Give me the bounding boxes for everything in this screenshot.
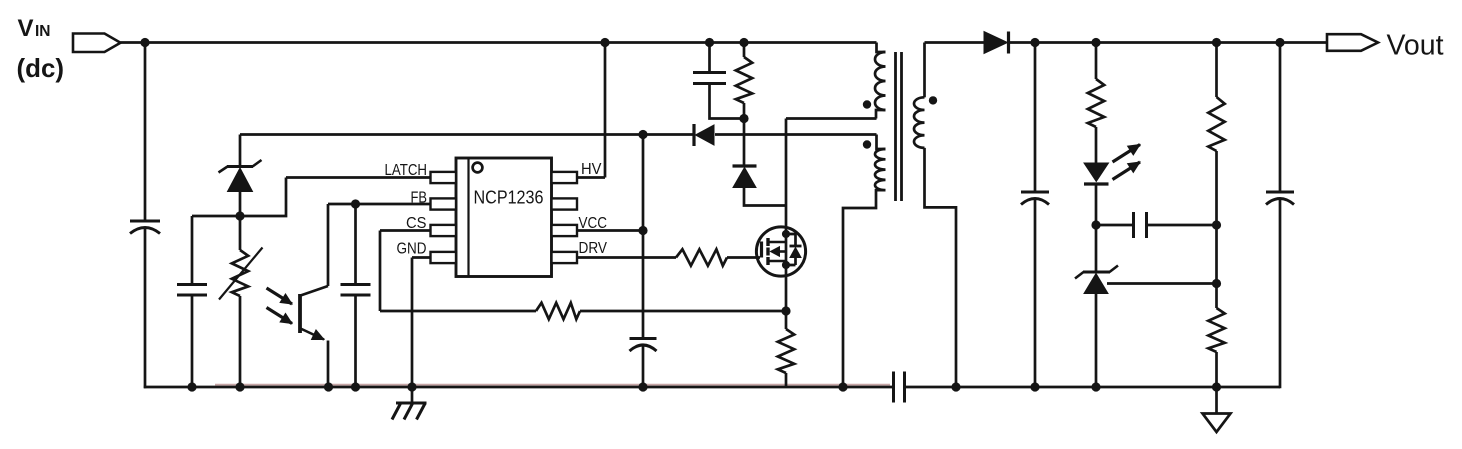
- wire aux top lead: [877, 135, 886, 150]
- label Vout: [1387, 30, 1444, 62]
- label FB: [411, 190, 428, 207]
- junction ref ground: [1091, 382, 1100, 391]
- wire cap C3 upper lead: [354, 204, 357, 285]
- capacitor C1 input bulk: [130, 221, 160, 234]
- capacitor C7 output: [1021, 192, 1049, 205]
- wire latch node left: [192, 215, 240, 218]
- wire comp cap right lead: [1147, 224, 1217, 227]
- junction snubber bottom: [739, 114, 748, 123]
- pin 4 GND: [431, 252, 457, 263]
- pin 7 NC: [552, 198, 578, 209]
- label GND: [397, 241, 427, 258]
- junction VCC pin node: [638, 226, 647, 235]
- wire source drop: [785, 276, 788, 311]
- wire primary top lead: [877, 43, 886, 53]
- junction VCC cap ground: [638, 382, 647, 391]
- wire aux winding top line: [715, 133, 877, 136]
- wire cap C2 upper lead: [191, 216, 194, 285]
- junction divider ground: [1212, 382, 1221, 391]
- inductor T1 secondary winding: [914, 97, 924, 148]
- wire top rail VIN to transformer: [121, 41, 877, 44]
- diode D4 opto LED: [1084, 163, 1109, 225]
- wire CS riser: [379, 231, 382, 312]
- junction source CS node: [781, 306, 790, 315]
- wire VIN bulk drop upper: [144, 43, 147, 222]
- wire GND pin: [412, 256, 431, 259]
- junction VCC node top: [638, 130, 647, 139]
- wire output rail: [1009, 41, 1328, 44]
- capacitor C6 Y-cap: [894, 372, 905, 403]
- wire aux bottom lead: [843, 190, 886, 388]
- capacitor C5 snubber: [693, 73, 726, 84]
- diode D1 clamp: [733, 166, 757, 188]
- zener diode D5 shunt reference: [1075, 225, 1118, 387]
- pin 8 HV: [552, 172, 578, 183]
- wire Cout1 lower lead: [1034, 199, 1037, 388]
- inductor T1 primary winding: [875, 52, 886, 110]
- node aux phase dot: [863, 140, 871, 148]
- junction LED branch rail: [1091, 38, 1100, 47]
- wire VCC pin: [577, 229, 643, 232]
- svg-text:HV: HV: [581, 161, 602, 178]
- label HV: [581, 161, 602, 178]
- junction input bulk: [140, 38, 149, 47]
- wire CS pin: [380, 229, 431, 232]
- wire gate: [727, 256, 760, 259]
- wire GND drop: [411, 258, 414, 388]
- wire snubber cap upper lead: [708, 43, 711, 73]
- capacitor C8 compensation: [1134, 212, 1147, 238]
- wire comp cap left lead: [1096, 224, 1134, 227]
- LED light arrow 2: [1113, 162, 1141, 180]
- resistor R4 snubber: [736, 43, 752, 119]
- svg-text:NCP1236: NCP1236: [474, 187, 544, 208]
- wire bottom rail primary: [144, 386, 892, 389]
- opto light arrow 2: [267, 308, 293, 324]
- label DRV: [579, 240, 608, 257]
- pin 6 VCC: [552, 225, 578, 236]
- wire bottom rail secondary: [905, 386, 1281, 389]
- svg-text:DRV: DRV: [579, 240, 608, 257]
- pin 5 DRV: [552, 252, 578, 263]
- junction FB node: [351, 199, 360, 208]
- capacitor C3 FB filter: [341, 285, 371, 296]
- LED light arrow 1: [1113, 145, 1141, 163]
- wire opto collector riser: [327, 204, 330, 286]
- opto transistor Q1: [300, 286, 328, 340]
- wire LATCH pin: [286, 176, 431, 179]
- junction Cout1 ground: [1030, 382, 1039, 391]
- core T1 lines: [896, 52, 902, 201]
- wire bottom rail red tint: [215, 384, 890, 386]
- junction output cap A: [1030, 38, 1039, 47]
- wire CS line left: [380, 310, 536, 313]
- diode D3 output rectifier: [984, 32, 1009, 54]
- wire drain riser: [785, 119, 788, 229]
- wire clamp upper: [743, 119, 746, 167]
- junction snubber res rail: [739, 38, 748, 47]
- resistor R7 divider upper: [1208, 43, 1224, 226]
- wire cap C3 lower lead: [354, 295, 357, 387]
- junction output cap B: [1275, 38, 1284, 47]
- svg-text:LATCH: LATCH: [385, 162, 428, 179]
- junction HV rail: [600, 38, 609, 47]
- pin 1 LATCH: [431, 172, 457, 183]
- wire clamp lower: [744, 188, 786, 206]
- node primary phase dot: [863, 100, 871, 108]
- wire snubber cap lower lead: [710, 84, 745, 119]
- ground chassis symbol: [392, 387, 427, 420]
- resistor R5 sense: [778, 311, 794, 387]
- svg-text:FB: FB: [411, 190, 428, 207]
- wire HV riser: [604, 43, 607, 178]
- wire DRV pin: [577, 256, 676, 259]
- junction opto ground: [324, 382, 333, 391]
- resistor R2 CS filter: [536, 303, 580, 319]
- junction divider ref: [1212, 279, 1221, 288]
- svg-text:V: V: [18, 15, 34, 42]
- transistor Q2 MOSFET: [756, 227, 805, 276]
- junction C3 ground: [351, 382, 360, 391]
- wire VCC cap lower lead: [642, 345, 645, 387]
- svg-text:GND: GND: [397, 241, 427, 258]
- junction IC ground: [407, 382, 416, 391]
- svg-text:IN: IN: [35, 23, 51, 40]
- resistor R8 divider lower: [1208, 284, 1224, 388]
- wire VCC vertical: [642, 135, 645, 339]
- label VCC: [579, 215, 608, 232]
- diode D2 aux rectifier: [694, 124, 714, 146]
- junction divider rail: [1212, 38, 1221, 47]
- pin 2 FB: [431, 198, 457, 209]
- wire secondary top lead: [923, 43, 926, 98]
- wire secondary bottom lead: [925, 148, 957, 388]
- label CS: [406, 215, 427, 232]
- wire latch node to LATCH riser: [240, 178, 286, 217]
- wire reference node: [1107, 282, 1217, 285]
- op IC U1 NCP1236 body: [456, 158, 552, 277]
- wire FB pin: [328, 203, 431, 206]
- zener diode OVP latch: [219, 135, 262, 217]
- input terminal tag VIN: [73, 34, 121, 53]
- node secondary phase dot: [929, 96, 937, 104]
- svg-text:(dc): (dc): [17, 53, 65, 83]
- pin 3 CS: [431, 225, 457, 236]
- output terminal tag Vout: [1327, 34, 1378, 51]
- label VIN (dc): [17, 15, 65, 83]
- junction snubber cap rail: [705, 38, 714, 47]
- wire cap C2 lower lead: [191, 295, 194, 387]
- capacitor C9 output: [1266, 192, 1294, 205]
- capacitor C4 VCC: [630, 339, 657, 352]
- svg-text:Vout: Vout: [1387, 30, 1444, 62]
- inductor T1 aux winding: [875, 149, 886, 190]
- junction NTC ground: [235, 382, 244, 391]
- wire opto emitter drop: [327, 341, 330, 388]
- capacitor C2: [177, 285, 207, 296]
- junction aux ground: [838, 382, 847, 391]
- junction secondary ground: [951, 382, 960, 391]
- ground earth symbol output: [1203, 387, 1231, 432]
- junction LED comp node: [1091, 220, 1100, 229]
- wire HV pin: [577, 176, 605, 179]
- wire Cout1 upper lead: [1034, 43, 1037, 193]
- wire Cout2 lower lead: [1279, 199, 1282, 389]
- junction latch node: [235, 211, 244, 220]
- wire primary bottom lead: [786, 110, 886, 119]
- resistor R6 LED series: [1088, 43, 1104, 164]
- wire divider mid: [1215, 225, 1218, 284]
- wire CS line right: [580, 310, 786, 313]
- junction C2 ground: [187, 382, 196, 391]
- label LATCH: [385, 162, 428, 179]
- resistor R3 gate: [676, 249, 727, 265]
- junction divider comp: [1212, 220, 1221, 229]
- thermistor NTC latch: [219, 216, 263, 387]
- label NCP1236: [474, 187, 544, 208]
- wire Cout2 upper lead: [1279, 43, 1282, 193]
- wire secondary to output diode: [925, 41, 985, 44]
- wire VIN bulk drop lower: [144, 228, 147, 388]
- opto light arrow 1: [267, 288, 293, 304]
- wire VCC-zener line: [240, 133, 693, 136]
